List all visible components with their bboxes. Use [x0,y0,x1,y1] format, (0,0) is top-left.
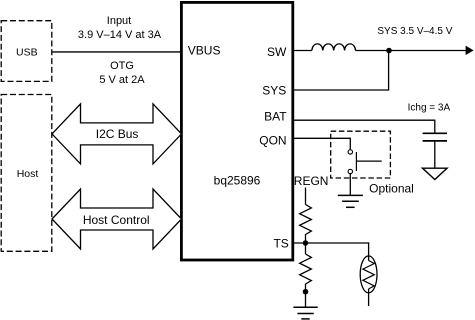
svg-text:OTG: OTG [110,60,134,72]
svg-text:Host: Host [17,168,39,180]
svg-text:VBUS: VBUS [188,44,221,58]
svg-text:bq25896: bq25896 [214,174,261,188]
svg-text:BAT: BAT [264,109,287,123]
svg-text:I2C Bus: I2C Bus [96,127,139,141]
svg-text:SW: SW [267,45,287,59]
svg-text:Host Control: Host Control [83,213,150,227]
svg-text:Input: Input [107,15,131,27]
svg-text:TS: TS [273,236,288,250]
svg-text:REGN: REGN [294,174,329,188]
svg-text:5 V at 2A: 5 V at 2A [99,74,145,86]
svg-text:SYS 3.5 V–4.5 V: SYS 3.5 V–4.5 V [377,26,452,37]
svg-text:3.9 V–14 V at 3A: 3.9 V–14 V at 3A [78,29,162,41]
svg-text:Optional: Optional [369,182,414,196]
svg-text:Ichg = 3A: Ichg = 3A [408,103,451,114]
svg-text:QON: QON [259,133,286,147]
svg-text:USB: USB [16,47,38,59]
svg-text:SYS: SYS [262,84,286,98]
